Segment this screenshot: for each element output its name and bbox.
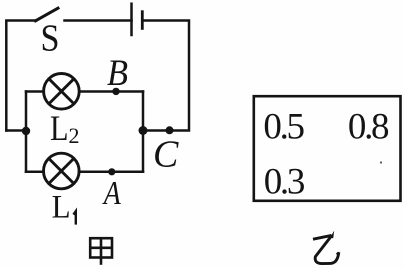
svg-text:0.8: 0.8 <box>348 107 389 148</box>
svg-text:2: 2 <box>69 123 80 148</box>
svg-text:A: A <box>102 175 121 212</box>
svg-text:0.3: 0.3 <box>264 161 305 202</box>
svg-text:C: C <box>153 133 179 175</box>
svg-text:L: L <box>50 108 69 148</box>
svg-text:B: B <box>107 53 128 94</box>
svg-text:L: L <box>52 190 71 226</box>
svg-text:0.5: 0.5 <box>263 107 304 148</box>
svg-text:S: S <box>41 17 60 59</box>
